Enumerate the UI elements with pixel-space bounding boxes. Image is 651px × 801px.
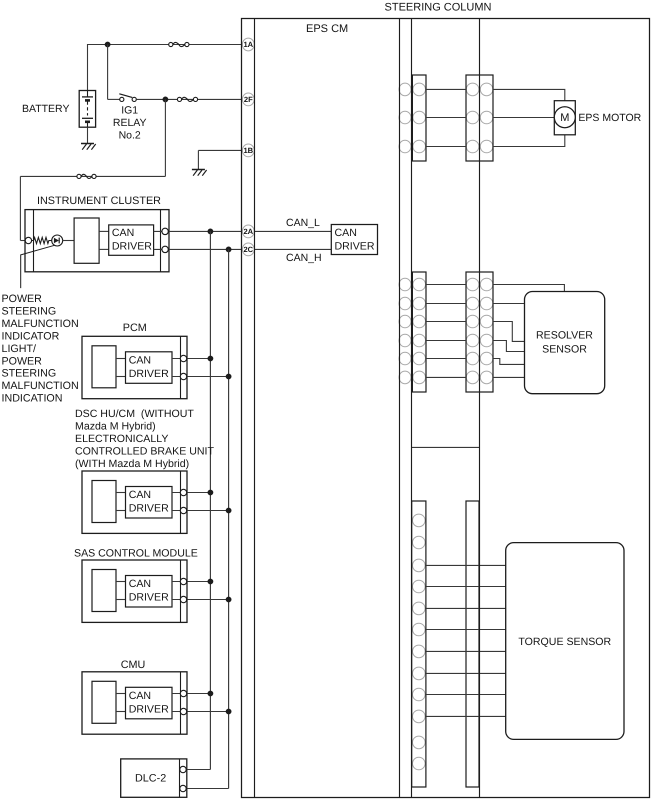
svg-text:STEERING: STEERING xyxy=(2,368,57,380)
DSC wire to CAN_H bus xyxy=(172,510,229,512)
resolver wire connector A-B row 2 xyxy=(426,303,466,305)
wire row 2F xyxy=(136,98,242,100)
resolver pin connector B right row 1 xyxy=(480,278,493,291)
DSC wire internal can-h xyxy=(116,510,126,512)
svg-text:STEERING COLUMN: STEERING COLUMN xyxy=(385,2,492,14)
ground battery xyxy=(81,143,94,145)
resolver sensor box xyxy=(525,292,605,394)
svg-text:POWER: POWER xyxy=(2,355,43,367)
wire motor phase 1 xyxy=(493,89,565,100)
SAS module box xyxy=(82,560,187,622)
SAS module internal box xyxy=(92,570,116,612)
PCM node CAN_L junction xyxy=(208,356,214,362)
steering column inner partition line xyxy=(479,19,481,798)
CMU module right rail line xyxy=(180,672,182,734)
resolver pin connector B right row 6 xyxy=(480,371,493,384)
motor wire connector A-B row 2 xyxy=(426,117,466,119)
resolver pin connector B right row 2 xyxy=(480,297,493,310)
PCM pin can-l xyxy=(180,355,186,361)
svg-text:PCM: PCM xyxy=(123,322,147,334)
PCM module internal box xyxy=(92,346,116,388)
wire cluster can-l internal xyxy=(99,230,109,232)
resolver pin EPS CM rail row 4 xyxy=(399,334,411,347)
fuse F2 xyxy=(177,97,181,101)
instrument cluster box xyxy=(25,210,169,272)
relay IG1 switch xyxy=(120,97,124,101)
motor pin connector A row 1 xyxy=(413,83,426,96)
pin 1A xyxy=(242,38,254,51)
resolver pin connector B left row 2 xyxy=(466,297,479,310)
svg-text:CAN_L: CAN_L xyxy=(286,217,320,229)
pin 1B xyxy=(242,144,254,157)
wire resolver 2 xyxy=(493,303,525,305)
svg-text:LIGHT/: LIGHT/ xyxy=(2,343,36,355)
svg-text:INDICATOR: INDICATOR xyxy=(2,330,60,342)
svg-text:(WITH Mazda M Hybrid): (WITH Mazda M Hybrid) xyxy=(75,458,189,470)
wire cluster CAN_H to 2C xyxy=(154,248,242,250)
pin DLC can-h xyxy=(180,785,186,791)
DSC module box xyxy=(82,471,187,533)
svg-text:TORQUE SENSOR: TORQUE SENSOR xyxy=(518,636,611,648)
svg-text:Mazda M Hybrid): Mazda M Hybrid) xyxy=(75,420,156,432)
pin DLC can-l xyxy=(180,766,186,772)
svg-text:STEERING: STEERING xyxy=(2,305,57,317)
svg-text:2C: 2C xyxy=(243,245,253,254)
wire battery drop xyxy=(87,44,89,91)
resolver wire connector A-B row 6 xyxy=(426,376,466,378)
wire 2C to EPS CAN driver xyxy=(255,248,332,250)
battery xyxy=(79,91,95,128)
motor pin connector A row 3 xyxy=(413,140,426,153)
resolver connector half box B xyxy=(466,272,493,392)
resolver pin connector A row 5 xyxy=(413,352,426,365)
svg-text:BATTERY: BATTERY xyxy=(22,103,69,115)
node CAN_L cluster junction xyxy=(208,229,214,235)
resolver pin connector B left row 3 xyxy=(466,315,479,328)
wire IG1 down feed xyxy=(164,99,166,176)
CAN driver box cluster xyxy=(109,225,154,255)
svg-text:POWER: POWER xyxy=(2,293,43,305)
svg-text:CONTROLLED BRAKE UNIT: CONTROLLED BRAKE UNIT xyxy=(75,445,214,457)
SAS wire to CAN_H bus xyxy=(172,599,229,601)
svg-text:No.2: No.2 xyxy=(119,129,141,141)
wire 1B ground drop xyxy=(197,150,199,169)
wire battery to ground xyxy=(87,127,89,143)
svg-text:MALFUNCTION: MALFUNCTION xyxy=(2,380,79,392)
motor pin connector B right row 1 xyxy=(480,83,493,96)
wire CAN_L bus xyxy=(209,231,211,769)
CMU module internal box xyxy=(92,681,116,723)
wire lamp to internal box xyxy=(63,240,74,242)
resolver pin connector B left row 5 xyxy=(466,352,479,365)
svg-text:EPS MOTOR: EPS MOTOR xyxy=(578,112,641,124)
svg-text:M: M xyxy=(560,112,569,124)
resolver connector half box A xyxy=(412,272,426,392)
cluster internal box xyxy=(74,218,99,263)
CMU wire to CAN_L bus xyxy=(172,693,210,695)
CMU node CAN_L junction xyxy=(208,691,214,697)
resolver wire connector A-B row 5 xyxy=(426,358,466,360)
svg-text:MALFUNCTION: MALFUNCTION xyxy=(2,318,79,330)
PCM node CAN_H junction xyxy=(226,374,232,380)
wire CAN_H bus xyxy=(228,249,230,788)
resolver pin connector B left row 6 xyxy=(466,371,479,384)
svg-text:RELAY: RELAY xyxy=(113,117,147,129)
svg-text:2A: 2A xyxy=(243,227,253,236)
SAS module right rail line xyxy=(180,560,182,622)
instrument cluster right rail line xyxy=(160,210,162,272)
svg-text:CAN: CAN xyxy=(129,489,151,501)
svg-text:IG1: IG1 xyxy=(121,105,138,117)
wire motor phase 2 xyxy=(493,117,554,119)
resolver pin EPS CM rail row 5 xyxy=(399,352,411,365)
resistor in cluster xyxy=(31,237,51,243)
SAS wire internal can-l xyxy=(116,581,126,583)
resolver pin connector A row 1 xyxy=(413,278,426,291)
SAS node CAN_H junction xyxy=(226,597,232,603)
wire DLC can-h xyxy=(183,788,229,790)
wire motor phase 3 xyxy=(493,135,565,147)
motor pin connector B left row 2 xyxy=(466,111,479,124)
wire resolver 4 xyxy=(493,341,525,352)
wire torque sensor signals xyxy=(425,564,506,566)
svg-text:1A: 1A xyxy=(243,40,253,49)
PCM wire internal can-l xyxy=(116,358,126,360)
motor pin EPS CM rail row 1 xyxy=(399,83,411,96)
CMU CAN driver box xyxy=(126,687,173,719)
PCM wire to CAN_H bus xyxy=(172,376,229,378)
CMU pin can-l xyxy=(180,690,186,696)
fuse F1 xyxy=(169,42,173,46)
svg-text:DSC HU/CM (WITHOUT: DSC HU/CM (WITHOUT xyxy=(75,408,194,420)
motor pin EPS CM rail row 3 xyxy=(399,140,411,153)
svg-text:DRIVER: DRIVER xyxy=(129,592,169,604)
wire cluster feed stub xyxy=(20,240,26,242)
fuse F3 xyxy=(77,174,81,178)
resolver pin EPS CM rail row 6 xyxy=(399,371,411,384)
node CAN_H cluster junction xyxy=(226,247,232,253)
torque connector half box A xyxy=(412,501,426,787)
CMU wire internal can-h xyxy=(116,711,126,713)
resolver pin connector B left row 4 xyxy=(466,334,479,347)
pin 2F xyxy=(242,93,254,106)
resolver pin EPS CM rail row 2 xyxy=(399,297,411,310)
wire cluster feed row xyxy=(20,175,165,177)
torque connector pins xyxy=(413,514,426,527)
resolver pin connector B right row 3 xyxy=(480,315,493,328)
resolver pin connector A row 3 xyxy=(413,315,426,328)
SAS CAN driver box xyxy=(126,576,173,608)
pin 2A xyxy=(242,225,254,238)
svg-text:EPS CM: EPS CM xyxy=(306,23,348,35)
svg-text:ELECTRONICALLY: ELECTRONICALLY xyxy=(75,433,168,445)
motor pin connector A row 2 xyxy=(413,111,426,124)
PCM wire internal can-h xyxy=(116,376,126,378)
SAS pin can-l xyxy=(180,578,186,584)
svg-text:2F: 2F xyxy=(244,95,253,104)
svg-text:RESOLVER: RESOLVER xyxy=(536,329,593,341)
motor connector half box B xyxy=(466,75,493,161)
motor pin connector B left row 1 xyxy=(466,83,479,96)
svg-text:DRIVER: DRIVER xyxy=(129,503,169,515)
svg-text:SENSOR: SENSOR xyxy=(542,343,587,355)
svg-text:CAN: CAN xyxy=(112,227,134,239)
leader line malfunction lamp xyxy=(21,245,55,288)
wire 2A to EPS CAN driver xyxy=(255,230,332,232)
PCM pin can-h xyxy=(180,373,186,379)
CMU module box xyxy=(82,672,187,734)
EPS motor M1 xyxy=(554,101,575,135)
DSC module right rail line xyxy=(180,471,182,533)
wire cluster can-h internal xyxy=(99,248,109,250)
CMU wire to CAN_H bus xyxy=(172,711,229,713)
wire 1B ground row xyxy=(198,149,241,151)
resolver wire connector A-B row 1 xyxy=(426,284,466,286)
resolver pin connector A row 2 xyxy=(413,297,426,310)
svg-text:1B: 1B xyxy=(243,146,253,155)
resolver pin EPS CM rail row 3 xyxy=(399,315,411,328)
DSC wire internal can-l xyxy=(116,492,126,494)
PCM module right rail line xyxy=(180,336,182,398)
pin cluster left xyxy=(25,237,31,243)
svg-text:CAN: CAN xyxy=(335,227,357,239)
pin cluster CAN_H xyxy=(162,246,168,252)
svg-text:DRIVER: DRIVER xyxy=(129,704,169,716)
svg-text:INDICATION: INDICATION xyxy=(2,393,63,405)
motor pin connector B right row 3 xyxy=(480,140,493,153)
indicator lamp xyxy=(52,235,63,246)
CMU pin can-h xyxy=(180,708,186,714)
wire resolver 5 xyxy=(493,359,525,365)
svg-text:DRIVER: DRIVER xyxy=(335,241,375,253)
resolver pin connector A row 6 xyxy=(413,371,426,384)
svg-text:SAS CONTROL MODULE: SAS CONTROL MODULE xyxy=(74,548,198,560)
DSC module internal box xyxy=(92,481,116,523)
ground 1B xyxy=(192,169,205,171)
svg-text:CAN_H: CAN_H xyxy=(286,252,322,264)
svg-text:CAN: CAN xyxy=(129,355,151,367)
svg-text:DRIVER: DRIVER xyxy=(112,241,152,253)
svg-text:CMU: CMU xyxy=(121,659,146,671)
resolver wire connector A-B row 3 xyxy=(426,321,466,323)
EPS CM right edge line xyxy=(399,19,401,798)
resolver wire connector A-B row 4 xyxy=(426,340,466,342)
svg-text:INSTRUMENT CLUSTER: INSTRUMENT CLUSTER xyxy=(37,195,161,207)
wire cluster feed drop xyxy=(19,176,21,240)
DSC node CAN_L junction xyxy=(208,490,214,496)
node junction battery/relay xyxy=(105,42,111,48)
wire DLC can-l xyxy=(183,769,210,771)
pin 2C xyxy=(242,243,254,256)
PCM wire to CAN_L bus xyxy=(172,358,210,360)
node junction IG1 output xyxy=(163,97,169,103)
SAS wire to CAN_L bus xyxy=(172,581,210,583)
PCM CAN driver box xyxy=(126,352,173,384)
instrument cluster left rail line xyxy=(33,210,35,272)
wire cluster CAN_L to 2A xyxy=(154,230,242,232)
steering column outer box xyxy=(242,19,650,798)
DLC-2 box xyxy=(121,759,187,797)
resolver pin connector A row 4 xyxy=(413,334,426,347)
wire resolver 3 xyxy=(493,322,525,342)
svg-text:CAN: CAN xyxy=(129,578,151,590)
wire torque shield link xyxy=(412,446,480,448)
DSC pin can-l xyxy=(180,489,186,495)
motor pin connector B left row 3 xyxy=(466,140,479,153)
DSC CAN driver box xyxy=(126,487,173,519)
resolver pin connector B right row 5 xyxy=(480,352,493,365)
torque connector half box B xyxy=(466,501,479,787)
SAS pin can-h xyxy=(180,596,186,602)
PCM module box xyxy=(82,336,187,398)
motor pin EPS CM rail row 2 xyxy=(399,111,411,124)
torque sensor box xyxy=(506,543,624,740)
DSC pin can-h xyxy=(180,507,186,513)
wire relay branch vertical xyxy=(107,45,109,100)
svg-text:DRIVER: DRIVER xyxy=(129,368,169,380)
svg-text:DLC-2: DLC-2 xyxy=(135,773,166,785)
resolver pin connector B left row 1 xyxy=(466,278,479,291)
CMU wire internal can-l xyxy=(116,693,126,695)
DLC-2 right rail line xyxy=(179,759,181,797)
CMU node CAN_H junction xyxy=(226,709,232,715)
SAS node CAN_L junction xyxy=(208,579,214,585)
pin cluster CAN_L xyxy=(162,228,168,234)
CAN driver box EPS CM xyxy=(331,225,377,255)
resolver pin connector B right row 4 xyxy=(480,334,493,347)
motor wire connector A-B row 3 xyxy=(426,146,466,148)
motor wire connector A-B row 1 xyxy=(426,88,466,90)
SAS wire internal can-h xyxy=(116,599,126,601)
wire relay branch to contact xyxy=(108,98,120,100)
wire resolver 1 xyxy=(493,285,564,292)
wire battery feed row 1A xyxy=(88,44,242,46)
wire resolver 6 xyxy=(493,376,525,378)
motor pin connector B right row 2 xyxy=(480,111,493,124)
EPS CM left connector rail inner line xyxy=(254,19,256,798)
EPS CM right connector rail line xyxy=(411,19,413,798)
DSC wire to CAN_L bus xyxy=(172,492,210,494)
svg-text:CAN: CAN xyxy=(129,690,151,702)
resolver pin EPS CM rail row 1 xyxy=(399,278,411,291)
motor connector half box A xyxy=(412,75,426,161)
DSC node CAN_H junction xyxy=(226,508,232,514)
